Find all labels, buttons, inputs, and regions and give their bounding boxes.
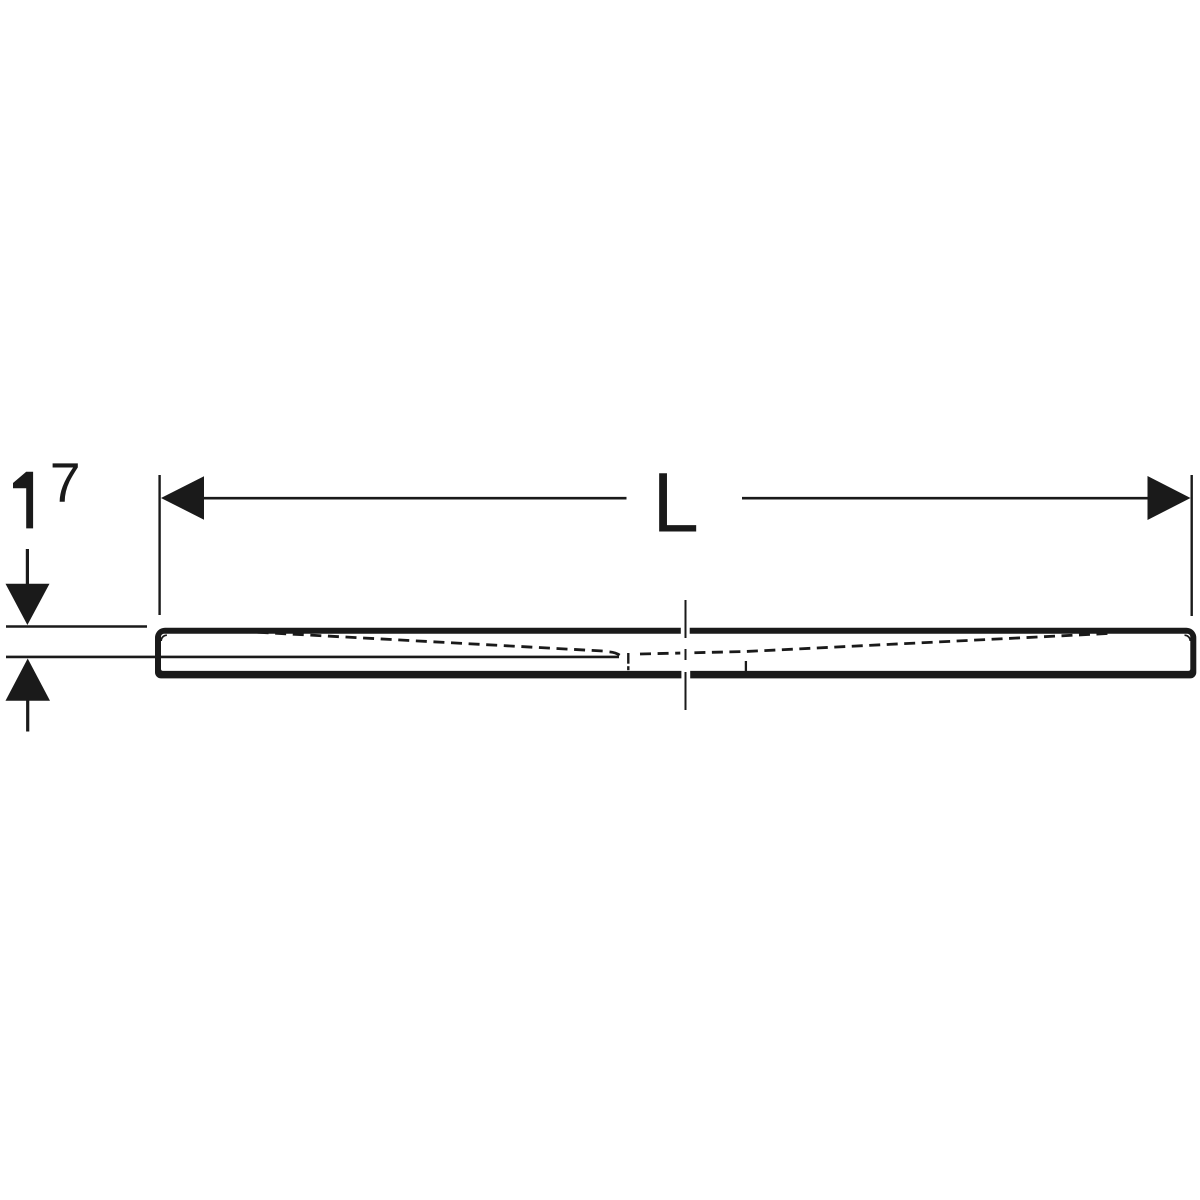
thickness dimension: down arrowhead xyxy=(6,584,50,625)
L dimension left arrowhead xyxy=(161,476,204,519)
thickness dimension: up arrow stem xyxy=(26,700,29,732)
inner fillet arc top-right corner xyxy=(1185,635,1191,641)
white gap in top edge at centre line xyxy=(681,626,690,635)
L dimension: left extension line xyxy=(158,475,160,615)
L dimension line right segment xyxy=(742,497,1148,500)
white gap in bottom edge at centre line xyxy=(681,670,690,680)
centre line of drain xyxy=(685,600,687,638)
hidden drain edge left (vertical dashes at x=628) xyxy=(627,653,629,664)
left slope: hook at drain end xyxy=(610,652,620,655)
svg-text:7: 7 xyxy=(50,452,81,514)
thin channel edge line (from left dim extension through tray to drain) xyxy=(6,656,619,659)
L dimension line left segment xyxy=(204,497,627,500)
hidden drain edge right (vertical dash at x=746) xyxy=(745,661,747,672)
thickness dimension: top extension line xyxy=(6,625,147,627)
tray body outline (side silhouette) xyxy=(155,628,1196,679)
thickness dimension: up arrowhead xyxy=(6,659,51,701)
label 1 xyxy=(13,472,33,529)
inner fillet arc top-left corner xyxy=(161,635,167,641)
hidden channel bottom dashes (centre region) xyxy=(640,652,680,656)
left slope: dashed line descending to drain xyxy=(240,631,603,651)
thickness dimension: down arrow stem xyxy=(26,549,29,585)
L dimension right arrowhead xyxy=(1148,476,1191,520)
svg-text:L: L xyxy=(652,456,699,550)
L dimension: right extension line xyxy=(1190,475,1192,616)
